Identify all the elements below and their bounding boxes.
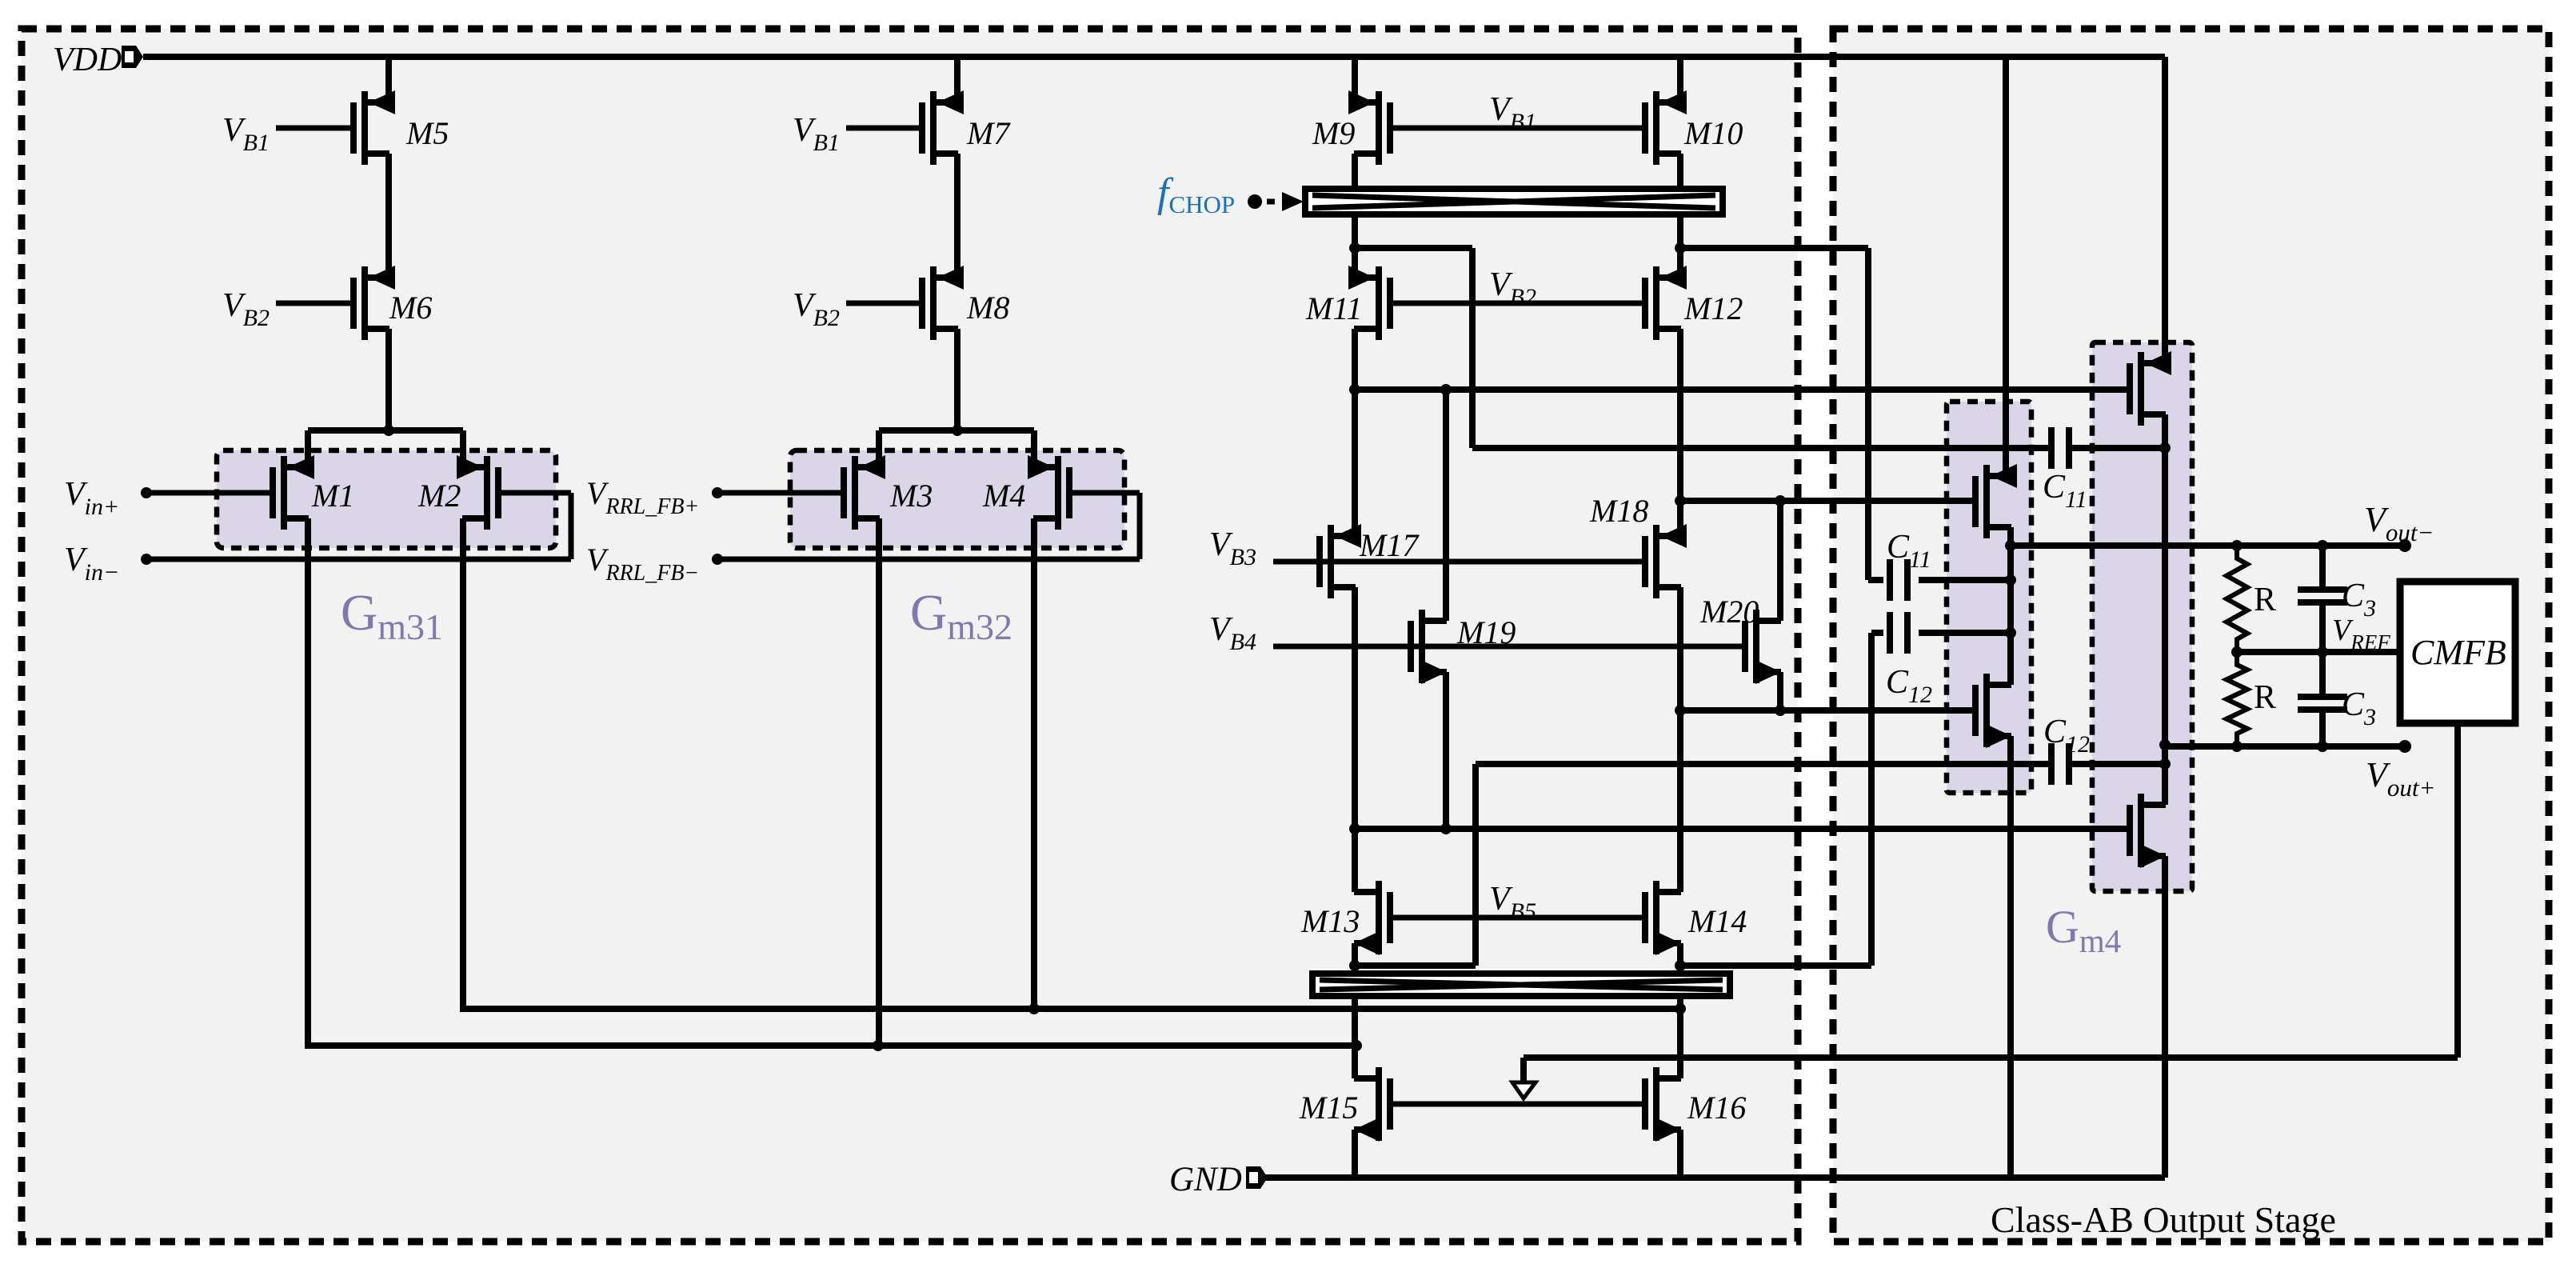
svg-text:M9: M9 — [1312, 115, 1355, 151]
svg-text:CMFB: CMFB — [2410, 633, 2506, 672]
svg-text:VDD: VDD — [53, 42, 122, 78]
svg-text:M3: M3 — [889, 478, 933, 514]
svg-text:M6: M6 — [389, 290, 432, 326]
svg-text:M15: M15 — [1299, 1090, 1358, 1126]
svg-text:R: R — [2254, 582, 2276, 618]
svg-text:M1: M1 — [311, 478, 354, 514]
svg-text:M10: M10 — [1683, 115, 1743, 151]
svg-text:M14: M14 — [1687, 903, 1747, 939]
svg-text:M7: M7 — [966, 115, 1011, 151]
svg-text:M20: M20 — [1699, 594, 1759, 630]
svg-text:M4: M4 — [982, 478, 1025, 514]
svg-text:M8: M8 — [966, 290, 1009, 326]
svg-text:M13: M13 — [1300, 903, 1360, 939]
svg-text:GND: GND — [1169, 1161, 1242, 1198]
svg-text:M18: M18 — [1589, 493, 1648, 529]
svg-text:M2: M2 — [417, 478, 461, 514]
svg-text:M12: M12 — [1683, 290, 1743, 326]
svg-text:M11: M11 — [1305, 290, 1362, 326]
svg-text:M19: M19 — [1456, 614, 1516, 650]
svg-text:M16: M16 — [1687, 1090, 1746, 1126]
svg-text:R: R — [2254, 679, 2276, 716]
svg-text:M5: M5 — [405, 115, 449, 151]
svg-text:Class-AB Output Stage: Class-AB Output Stage — [1991, 1199, 2336, 1240]
svg-text:M17: M17 — [1359, 527, 1420, 563]
